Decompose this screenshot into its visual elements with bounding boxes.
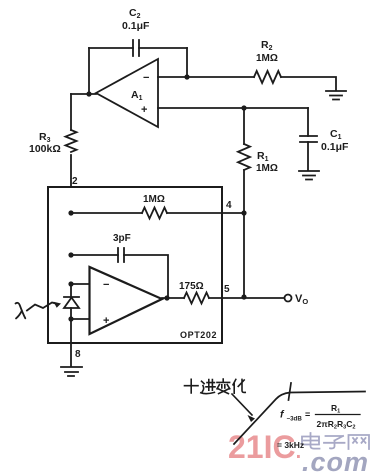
wire: rail through photodiode region xyxy=(70,284,72,319)
pin 2 label xyxy=(72,176,78,187)
svg-text:−: − xyxy=(143,72,149,84)
svg-text:f: f xyxy=(280,409,285,421)
node: junction on inverting line xyxy=(184,74,189,79)
wire: left rail down to box (through R3) xyxy=(70,94,72,187)
svg-text:+: + xyxy=(141,104,147,116)
node: junction inverting xyxy=(68,281,73,286)
svg-text:−3dB: −3dB xyxy=(287,416,303,423)
svg-text:R1: R1 xyxy=(257,150,269,163)
node: junction non-inverting xyxy=(68,316,73,321)
svg-text:100kΩ: 100kΩ xyxy=(29,143,61,155)
op-amp A1 xyxy=(96,59,158,127)
wire: inverting input line to R2 xyxy=(158,76,254,78)
photodiode D1 xyxy=(64,297,79,308)
label 十进变化 glyphs xyxy=(185,379,246,394)
node: A1 output junction xyxy=(86,91,91,96)
svg-text:+: + xyxy=(103,315,109,327)
node: junction pin4 line xyxy=(241,210,246,215)
svg-text:A1: A1 xyxy=(131,89,143,102)
node: junction on left rail at 3pF line xyxy=(68,252,73,257)
wire: R1 rail top xyxy=(243,108,245,144)
svg-text:2: 2 xyxy=(72,176,78,187)
resistor 175 ohm xyxy=(184,293,209,304)
lambda light symbol xyxy=(16,302,62,319)
capacitor C2 labels xyxy=(122,7,150,32)
resistor R1 labels xyxy=(256,150,278,174)
svg-text:R2: R2 xyxy=(261,39,273,52)
graph tick mark xyxy=(289,383,292,400)
internal 1M label xyxy=(143,194,165,205)
svg-text:3pF: 3pF xyxy=(113,233,131,244)
wire: C1 to ground xyxy=(307,142,309,170)
svg-text:175Ω: 175Ω xyxy=(179,281,204,292)
capacitor C1 xyxy=(300,136,317,142)
svg-text:1MΩ: 1MΩ xyxy=(256,163,278,174)
svg-text:C1: C1 xyxy=(330,128,342,141)
wire: rail to pin 8 and ground xyxy=(70,319,72,366)
formula fraction bar xyxy=(316,414,361,416)
resistor 1M ohm internal xyxy=(142,208,167,219)
OPT202 package box xyxy=(48,187,222,343)
wire: non-inverting input line xyxy=(158,107,308,109)
formula f-3dB xyxy=(277,403,356,450)
svg-text:=: = xyxy=(305,410,310,420)
node: junction R1 top xyxy=(241,105,246,110)
wire: R2 to ground xyxy=(281,77,336,90)
wire: top feedback run right of C2 xyxy=(139,47,187,49)
svg-text:C2: C2 xyxy=(129,7,141,20)
watermark 21IC.com xyxy=(228,429,369,475)
svg-text:4: 4 xyxy=(226,200,232,211)
wire: down to C1 xyxy=(307,108,309,136)
svg-text:−: − xyxy=(103,279,109,291)
svg-text:OPT202: OPT202 xyxy=(180,330,217,340)
op-amp U1 internal xyxy=(90,267,163,334)
pin 8 label xyxy=(75,349,81,360)
wire: feedback vertical from output node xyxy=(88,48,90,94)
pin 4 label xyxy=(226,200,232,211)
watermark 电子网 glyphs xyxy=(302,433,369,449)
resistor R3 xyxy=(66,130,77,152)
ground (below C1) xyxy=(299,171,319,180)
svg-text:2πR2R3C2: 2πR2R3C2 xyxy=(317,419,356,430)
pin 5 label xyxy=(224,284,230,295)
node: junction pin5 line xyxy=(241,294,246,299)
svg-text:0.1μF: 0.1μF xyxy=(122,20,150,32)
node VO terminal xyxy=(285,295,292,302)
svg-text:5: 5 xyxy=(224,284,230,295)
wire: pin5 line to output terminal xyxy=(209,297,284,299)
wire: 3pF line xyxy=(71,255,168,298)
graph curve xyxy=(234,392,365,445)
svg-text:1MΩ: 1MΩ xyxy=(256,53,278,64)
resistor R2 labels xyxy=(256,39,278,64)
node: junction 3pF at output xyxy=(164,295,169,300)
capacitor C1 labels xyxy=(321,128,349,153)
wire: top feedback run left of C2 xyxy=(89,47,133,49)
svg-text:.com: .com xyxy=(302,447,369,475)
wire: inverting input internal xyxy=(71,283,89,285)
svg-text:1MΩ: 1MΩ xyxy=(143,194,165,205)
wire: U1 output to 175 ohm xyxy=(162,297,184,299)
wire: non-inverting input internal xyxy=(71,318,89,320)
ground (pin 8) xyxy=(61,367,82,376)
wire: internal 1M feedback line (pin4) xyxy=(71,212,244,214)
node: junction on left rail at 1M line xyxy=(68,210,73,215)
label arrow xyxy=(232,394,252,415)
175 ohm label xyxy=(179,281,204,292)
resistor R2 xyxy=(254,71,281,83)
svg-text:0.1μF: 0.1μF xyxy=(321,141,349,153)
capacitor C2 xyxy=(133,40,139,56)
wire: R1 rail down to pin4 node and pin5 node xyxy=(243,170,245,296)
3pF label xyxy=(113,233,131,244)
capacitor 3pF xyxy=(118,248,124,262)
svg-text:R1: R1 xyxy=(331,403,340,414)
resistor R1 xyxy=(238,144,250,170)
wire: A1 output left run xyxy=(71,93,96,95)
svg-text:VO: VO xyxy=(295,293,308,306)
svg-text:= 3kHz: = 3kHz xyxy=(277,440,304,450)
resistor R3 labels xyxy=(29,131,61,155)
wire: feedback vertical down to inverting input xyxy=(186,48,188,77)
svg-text:8: 8 xyxy=(75,349,81,360)
ground (right of R2) xyxy=(326,91,346,100)
